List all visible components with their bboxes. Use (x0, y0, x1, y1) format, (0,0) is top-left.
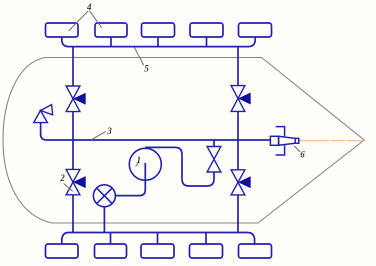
right riser pipe upper segment (237, 47, 239, 86)
orange jet centreline (300, 140, 364, 142)
main horizontal line 3 (47, 139, 271, 141)
pipe from pump top to open valve (S-shape) (145, 147, 214, 186)
label 4 leader lines (69, 11, 102, 31)
left riser pipe lower segment (72, 195, 74, 233)
pipe from pump centre down to fan (115, 163, 145, 196)
cargo tank bottom 2 (95, 233, 127, 259)
hull outline of vessel (3, 58, 364, 224)
right riser pipe middle segment (237, 111, 239, 169)
vent down pipe elbow (41, 123, 47, 140)
svg-text:5: 5 (144, 64, 149, 74)
left riser pipe middle segment (72, 112, 74, 170)
bottom manifold with end elbows (62, 233, 255, 245)
cargo tank top 3 (142, 23, 175, 46)
cargo tank top 1 (46, 23, 79, 37)
cargo tank bottom 3 (141, 233, 174, 259)
cargo tank top 5 (239, 23, 272, 37)
cargo tank bottom 4 (190, 233, 223, 259)
open valve V5 (bowtie, no fill) (207, 147, 221, 173)
valve V1 on left riser (bowtie with solid actuator) (66, 86, 86, 112)
valve V2 on left riser (bowtie with solid actuator) (66, 169, 86, 194)
label 5 leader line (134, 47, 144, 65)
svg-text:1: 1 (137, 155, 142, 165)
monitor nozzle 6 (270, 127, 298, 155)
cargo tank bottom 5 (239, 244, 272, 258)
valve V3 on right riser upper (bowtie with solid actuator) (231, 86, 251, 112)
cargo tank top 2 (95, 23, 127, 46)
pump P1 circle (129, 148, 161, 180)
svg-text:3: 3 (106, 126, 112, 136)
svg-text:6: 6 (300, 150, 305, 160)
label 2 leader line (64, 183, 73, 191)
valve V4 on right riser lower (bowtie with solid actuator) (231, 170, 251, 195)
right riser pipe lower segment (237, 195, 239, 233)
label 1 leader line (136, 162, 139, 166)
label 3 leader line (91, 132, 105, 140)
fan bottom stub to bottom manifold (103, 207, 105, 233)
fan / blower (crossed circle) (93, 185, 115, 207)
left riser pipe upper segment (72, 47, 74, 86)
cargo tank bottom 1 (46, 244, 79, 258)
stub from valve V5 up to line 3 (213, 140, 215, 147)
svg-text:2: 2 (59, 173, 65, 183)
label 6 leader line (294, 146, 300, 152)
top manifold line 5 with end elbows (62, 37, 255, 47)
air vent head (two triangles) (34, 105, 53, 123)
cargo tank top 4 (190, 23, 223, 46)
svg-text:4: 4 (86, 2, 92, 12)
